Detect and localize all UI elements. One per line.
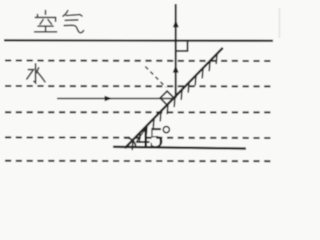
dashed normal to mirror (145, 67, 166, 88)
label 空气 (air) character 气 (63, 11, 84, 33)
label 空气 (air) character 空 (35, 11, 57, 32)
svg-text:45: 45 (136, 122, 164, 154)
mirror hatching (132, 54, 217, 149)
right-angle mark at mirror (rotated square) (160, 91, 174, 105)
dashed water line 5 (5, 160, 273, 162)
plane mirror (45°) (125, 48, 223, 148)
dashed water line 4 (5, 136, 273, 139)
dashed water line 3 (5, 111, 273, 113)
label 水 (water) (27, 64, 45, 83)
water surface line (4, 39, 273, 42)
dashed water line 2 (5, 85, 273, 87)
base line under mirror (113, 147, 246, 149)
background paper (0, 0, 282, 175)
faint scan artifact right edge (279, 8, 281, 38)
incident ray arrowhead (105, 96, 113, 102)
reflected ray arrowhead in water (173, 65, 179, 72)
refracted ray arrowhead in air (173, 20, 179, 27)
right-angle mark at water surface (176, 41, 188, 51)
degree symbol (163, 127, 169, 133)
dashed water line 1 (5, 60, 273, 63)
reflected ray (vertical) (175, 4, 177, 98)
45 degree angle arc (125, 138, 136, 147)
incident ray (horizontal) (57, 98, 175, 100)
